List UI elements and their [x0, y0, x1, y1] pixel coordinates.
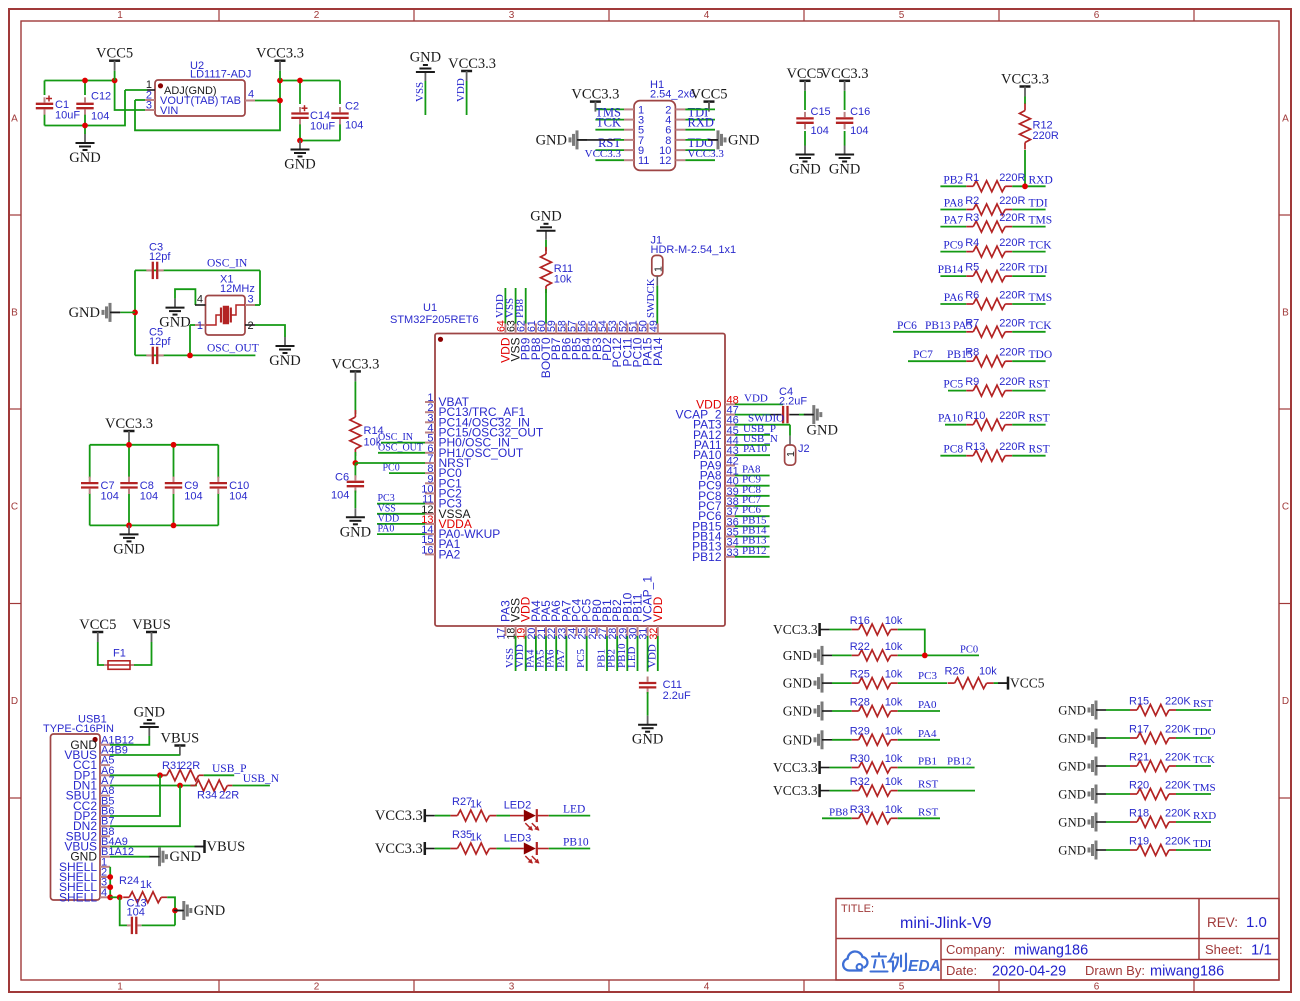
svg-text:VIN: VIN: [160, 105, 178, 117]
svg-text:GND: GND: [69, 150, 100, 166]
svg-text:16: 16: [421, 544, 433, 556]
svg-text:R1: R1: [965, 172, 979, 184]
svg-text:VDD: VDD: [651, 596, 665, 622]
svg-text:PA14: PA14: [651, 337, 665, 366]
svg-text:GND: GND: [783, 732, 812, 747]
svg-text:220R: 220R: [999, 195, 1025, 207]
svg-text:VDD: VDD: [455, 78, 467, 102]
svg-text:GND: GND: [783, 704, 812, 719]
svg-text:2: 2: [314, 982, 320, 993]
svg-text:SHELL: SHELL: [59, 890, 97, 904]
svg-text:B: B: [11, 308, 18, 319]
svg-text:GND: GND: [807, 423, 838, 439]
svg-text:220R: 220R: [999, 212, 1025, 224]
svg-text:PA0: PA0: [378, 524, 395, 535]
svg-text:PB13: PB13: [925, 320, 951, 332]
svg-text:miwang186: miwang186: [1150, 964, 1224, 980]
svg-text:VCC3.3: VCC3.3: [821, 66, 869, 82]
svg-text:VCC3.3: VCC3.3: [375, 841, 423, 857]
svg-text:VCC3.3: VCC3.3: [1001, 72, 1049, 88]
svg-text:Drawn By:: Drawn By:: [1085, 963, 1145, 978]
svg-text:10k: 10k: [885, 697, 903, 709]
svg-text:PB8: PB8: [829, 806, 848, 818]
svg-text:RST: RST: [918, 806, 938, 818]
svg-text:EDA: EDA: [908, 958, 941, 975]
svg-text:22R: 22R: [219, 790, 239, 802]
svg-text:VCC3.3: VCC3.3: [773, 760, 818, 775]
svg-text:10k: 10k: [979, 666, 997, 678]
svg-text:miwang186: miwang186: [1014, 943, 1088, 959]
svg-text:R25: R25: [850, 669, 870, 681]
svg-text:RST: RST: [1029, 413, 1050, 425]
svg-text:C6: C6: [335, 472, 349, 484]
svg-text:J2: J2: [798, 443, 810, 455]
svg-text:VCC3.3: VCC3.3: [256, 46, 304, 62]
svg-text:D: D: [11, 696, 18, 707]
svg-text:Sheet:: Sheet:: [1205, 942, 1243, 957]
svg-text:PB10: PB10: [563, 837, 589, 849]
svg-text:220R: 220R: [999, 262, 1025, 274]
svg-text:R33: R33: [850, 804, 870, 816]
svg-text:R2: R2: [965, 195, 979, 207]
svg-text:104: 104: [345, 120, 363, 132]
svg-text:10k: 10k: [364, 437, 382, 449]
svg-text:12pf: 12pf: [149, 336, 171, 348]
svg-text:PB15: PB15: [947, 349, 973, 361]
svg-text:GND: GND: [284, 157, 315, 173]
svg-text:PC3: PC3: [918, 670, 937, 682]
svg-text:VCC3.3: VCC3.3: [375, 808, 423, 824]
svg-text:R5: R5: [965, 262, 979, 274]
svg-text:GND: GND: [632, 732, 663, 748]
svg-text:D: D: [1282, 696, 1289, 707]
svg-text:USB_P: USB_P: [212, 763, 247, 775]
svg-text:C16: C16: [850, 106, 870, 118]
svg-text:R6: R6: [965, 290, 979, 302]
svg-text:1: 1: [117, 10, 123, 21]
svg-text:1: 1: [785, 451, 797, 457]
svg-text:R28: R28: [850, 697, 870, 709]
svg-text:PB2: PB2: [943, 174, 963, 186]
svg-text:GND: GND: [410, 50, 441, 66]
svg-text:LED2: LED2: [504, 800, 532, 812]
svg-text:220R: 220R: [999, 172, 1025, 184]
svg-text:TCK: TCK: [1193, 754, 1215, 766]
svg-text:6: 6: [1094, 10, 1100, 21]
svg-text:GND: GND: [1058, 760, 1086, 774]
svg-text:1k: 1k: [470, 832, 482, 844]
svg-text:R16: R16: [850, 615, 870, 627]
svg-text:10uF: 10uF: [55, 110, 80, 122]
svg-text:VCC5: VCC5: [690, 87, 727, 103]
svg-text:VBUS: VBUS: [207, 839, 246, 855]
svg-text:104: 104: [850, 125, 868, 137]
svg-text:VCC3.3: VCC3.3: [571, 87, 619, 103]
svg-text:220K: 220K: [1165, 696, 1191, 708]
svg-text:VCC3.3: VCC3.3: [773, 783, 818, 798]
svg-text:VCC3.3: VCC3.3: [105, 416, 153, 432]
svg-text:220K: 220K: [1165, 808, 1191, 820]
svg-text:VSS: VSS: [414, 82, 426, 102]
svg-text:PC6: PC6: [897, 320, 917, 332]
svg-text:RST: RST: [1193, 698, 1213, 710]
svg-text:10k: 10k: [885, 615, 903, 627]
svg-text:GND: GND: [1058, 816, 1086, 830]
svg-text:104: 104: [127, 907, 145, 919]
svg-text:2: 2: [314, 10, 320, 21]
svg-text:104: 104: [331, 490, 349, 502]
svg-text:HDR-M-2.54_1x1: HDR-M-2.54_1x1: [651, 244, 737, 256]
svg-text:PA7: PA7: [555, 649, 567, 668]
svg-text:TDI: TDI: [1029, 198, 1048, 210]
svg-text:2.2uF: 2.2uF: [779, 396, 807, 408]
svg-text:R34: R34: [197, 790, 217, 802]
svg-text:5: 5: [899, 10, 905, 21]
svg-text:PA6: PA6: [944, 292, 964, 304]
svg-text:SWDCK: SWDCK: [645, 278, 657, 318]
svg-text:TAB: TAB: [220, 95, 241, 107]
svg-text:A: A: [1282, 114, 1289, 125]
svg-text:220K: 220K: [1165, 780, 1191, 792]
svg-text:PA0: PA0: [918, 699, 937, 711]
svg-text:4: 4: [248, 89, 254, 101]
svg-text:C15: C15: [811, 106, 831, 118]
svg-text:B: B: [1282, 308, 1289, 319]
svg-text:PB1: PB1: [918, 756, 937, 768]
svg-text:TMS: TMS: [1029, 215, 1053, 227]
svg-text:3: 3: [509, 10, 515, 21]
svg-text:RST: RST: [1029, 444, 1050, 456]
svg-text:LD1117-ADJ: LD1117-ADJ: [190, 69, 251, 81]
svg-text:GND: GND: [536, 132, 567, 148]
svg-text:VCC3.3: VCC3.3: [448, 56, 496, 72]
svg-text:PB14: PB14: [938, 264, 964, 276]
svg-text:PB12: PB12: [742, 545, 766, 557]
svg-text:A: A: [11, 114, 18, 125]
svg-text:C12: C12: [91, 91, 111, 103]
svg-text:RST: RST: [918, 779, 938, 791]
svg-text:4: 4: [101, 887, 107, 899]
svg-text:LED: LED: [563, 804, 585, 816]
svg-text:1: 1: [652, 266, 664, 272]
svg-text:TITLE:: TITLE:: [841, 903, 874, 915]
svg-text:11: 11: [638, 155, 649, 167]
svg-text:PC7: PC7: [913, 349, 933, 361]
svg-text:R32: R32: [850, 776, 870, 788]
svg-text:1/1: 1/1: [1251, 942, 1272, 959]
svg-text:R4: R4: [965, 237, 979, 249]
svg-text:3: 3: [248, 294, 254, 306]
svg-text:R17: R17: [1129, 724, 1149, 736]
svg-text:4: 4: [704, 10, 710, 21]
svg-text:PC5: PC5: [943, 379, 963, 391]
svg-text:R20: R20: [1129, 780, 1149, 792]
svg-text:104: 104: [811, 125, 829, 137]
svg-text:Date:: Date:: [946, 963, 977, 978]
svg-text:VCC3.3: VCC3.3: [585, 148, 622, 160]
svg-text:GND: GND: [829, 162, 860, 178]
svg-text:220R: 220R: [999, 410, 1025, 422]
svg-text:TYPE-C16PIN: TYPE-C16PIN: [43, 723, 114, 735]
svg-text:220K: 220K: [1165, 724, 1191, 736]
svg-text:REV:: REV:: [1207, 915, 1238, 930]
svg-text:10k: 10k: [885, 669, 903, 681]
svg-text:F1: F1: [113, 648, 126, 660]
svg-text:10k: 10k: [885, 725, 903, 737]
svg-text:PA10: PA10: [743, 443, 768, 455]
svg-text:10uF: 10uF: [310, 121, 335, 133]
svg-text:VCC5: VCC5: [1010, 676, 1045, 691]
svg-text:2020-04-29: 2020-04-29: [992, 964, 1066, 980]
svg-text:220R: 220R: [999, 317, 1025, 329]
svg-text:C: C: [11, 502, 18, 513]
svg-text:R9: R9: [965, 376, 979, 388]
svg-text:1: 1: [117, 982, 123, 993]
svg-text:GND: GND: [1058, 844, 1086, 858]
svg-text:GND: GND: [1058, 732, 1086, 746]
svg-text:R19: R19: [1129, 836, 1149, 848]
svg-text:VCC3.3: VCC3.3: [773, 622, 818, 637]
svg-text:2: 2: [248, 320, 254, 332]
svg-text:GND: GND: [530, 208, 561, 224]
svg-text:OSC_OUT: OSC_OUT: [378, 442, 423, 453]
svg-text:GND: GND: [134, 705, 165, 721]
svg-text:GND: GND: [783, 648, 812, 663]
svg-text:Company:: Company:: [946, 942, 1005, 957]
svg-text:VCC3.3: VCC3.3: [688, 148, 725, 160]
svg-text:PA2: PA2: [439, 547, 461, 561]
svg-text:R29: R29: [850, 725, 870, 737]
svg-text:VCC5: VCC5: [96, 46, 133, 62]
svg-text:2.54_2x6: 2.54_2x6: [650, 89, 695, 101]
svg-text:VBUS: VBUS: [161, 731, 200, 747]
svg-text:R15: R15: [1129, 696, 1149, 708]
svg-text:RST: RST: [1029, 379, 1050, 391]
svg-text:3: 3: [146, 100, 152, 112]
svg-text:R24: R24: [119, 875, 139, 887]
svg-text:USB_N: USB_N: [243, 773, 280, 785]
svg-text:1: 1: [197, 320, 203, 332]
svg-text:6: 6: [1094, 982, 1100, 993]
svg-text:TDI: TDI: [1193, 838, 1212, 850]
svg-text:R18: R18: [1129, 808, 1149, 820]
svg-text:U1: U1: [423, 302, 437, 314]
svg-text:TDO: TDO: [1029, 349, 1053, 361]
svg-text:TDI: TDI: [1029, 264, 1048, 276]
svg-text:GND: GND: [69, 305, 100, 321]
svg-text:220K: 220K: [1165, 752, 1191, 764]
svg-text:PA8: PA8: [944, 198, 964, 210]
svg-text:VBUS: VBUS: [132, 617, 171, 633]
svg-text:220R: 220R: [999, 290, 1025, 302]
svg-text:GND: GND: [269, 353, 300, 369]
svg-text:OSC_OUT: OSC_OUT: [207, 343, 259, 355]
svg-text:GND: GND: [170, 849, 201, 865]
svg-text:10k: 10k: [885, 753, 903, 765]
svg-text:TCK: TCK: [596, 116, 621, 130]
svg-text:PC0: PC0: [383, 463, 400, 474]
svg-text:PC8: PC8: [943, 444, 963, 456]
svg-text:220R: 220R: [999, 376, 1025, 388]
svg-text:RXD: RXD: [1193, 810, 1216, 822]
svg-text:R14: R14: [364, 425, 384, 437]
svg-text:22R: 22R: [180, 760, 200, 772]
svg-text:R22: R22: [850, 641, 870, 653]
svg-text:GND: GND: [1058, 704, 1086, 718]
svg-text:VCC3.3: VCC3.3: [331, 356, 379, 372]
svg-text:5: 5: [899, 982, 905, 993]
svg-text:PC0: PC0: [960, 644, 978, 655]
svg-text:2.2uF: 2.2uF: [663, 690, 691, 702]
svg-text:220K: 220K: [1165, 836, 1191, 848]
svg-text:PC9: PC9: [943, 240, 963, 252]
svg-text:1k: 1k: [470, 799, 482, 811]
svg-text:104: 104: [140, 491, 158, 503]
svg-text:R26: R26: [945, 666, 965, 678]
svg-text:TMS: TMS: [1029, 292, 1053, 304]
svg-text:GND: GND: [159, 315, 190, 331]
svg-text:mini-Jlink-V9: mini-Jlink-V9: [900, 915, 992, 932]
svg-text:R13: R13: [965, 441, 985, 453]
svg-text:GND: GND: [340, 524, 371, 540]
svg-text:1k: 1k: [140, 879, 152, 891]
svg-text:10k: 10k: [554, 274, 572, 286]
svg-text:VCC5: VCC5: [786, 66, 823, 82]
svg-text:VDD: VDD: [744, 392, 768, 404]
svg-text:VCC5: VCC5: [79, 617, 116, 633]
svg-text:12: 12: [659, 155, 671, 167]
svg-text:104: 104: [229, 491, 247, 503]
svg-text:PA5: PA5: [953, 320, 973, 332]
svg-text:4: 4: [704, 982, 710, 993]
svg-text:TDO: TDO: [1193, 726, 1216, 738]
svg-text:LED3: LED3: [504, 833, 532, 845]
svg-text:PB12: PB12: [947, 756, 971, 768]
svg-text:GND: GND: [194, 903, 225, 919]
svg-text:STM32F205RET6: STM32F205RET6: [390, 314, 479, 326]
svg-text:104: 104: [91, 111, 109, 123]
svg-text:PA4: PA4: [918, 728, 937, 740]
svg-text:104: 104: [101, 491, 119, 503]
svg-text:R3: R3: [965, 212, 979, 224]
svg-text:PA7: PA7: [944, 215, 964, 227]
svg-text:220R: 220R: [1033, 130, 1059, 142]
svg-text:PC5: PC5: [575, 649, 587, 668]
svg-text:12pf: 12pf: [149, 251, 171, 263]
svg-text:OSC_IN: OSC_IN: [207, 258, 248, 270]
svg-text:PB8: PB8: [514, 299, 526, 318]
svg-text:220R: 220R: [999, 441, 1025, 453]
svg-text:104: 104: [184, 491, 202, 503]
svg-text:TMS: TMS: [1193, 782, 1216, 794]
svg-text:10k: 10k: [885, 804, 903, 816]
svg-text:GND: GND: [113, 541, 144, 557]
svg-text:1.0: 1.0: [1246, 914, 1267, 931]
svg-text:4: 4: [197, 294, 203, 306]
svg-text:10k: 10k: [885, 641, 903, 653]
svg-text:R10: R10: [965, 410, 985, 422]
svg-text:GND: GND: [789, 162, 820, 178]
svg-text:RXD: RXD: [1029, 174, 1053, 186]
svg-text:LED: LED: [626, 647, 638, 668]
svg-text:220R: 220R: [999, 237, 1025, 249]
svg-text:TCK: TCK: [1029, 240, 1053, 252]
svg-text:C2: C2: [345, 101, 359, 113]
svg-text:10k: 10k: [885, 776, 903, 788]
svg-text:TCK: TCK: [1029, 320, 1053, 332]
svg-text:GND: GND: [1058, 788, 1086, 802]
svg-text:GND: GND: [728, 132, 759, 148]
svg-text:PA10: PA10: [938, 413, 963, 425]
svg-text:3: 3: [509, 982, 515, 993]
svg-text:C: C: [1282, 502, 1289, 513]
svg-text:RXD: RXD: [688, 116, 714, 130]
svg-text:PB12: PB12: [692, 550, 722, 564]
svg-text:R21: R21: [1129, 752, 1149, 764]
svg-text:R30: R30: [850, 753, 870, 765]
svg-text:220R: 220R: [999, 347, 1025, 359]
svg-text:GND: GND: [783, 676, 812, 691]
